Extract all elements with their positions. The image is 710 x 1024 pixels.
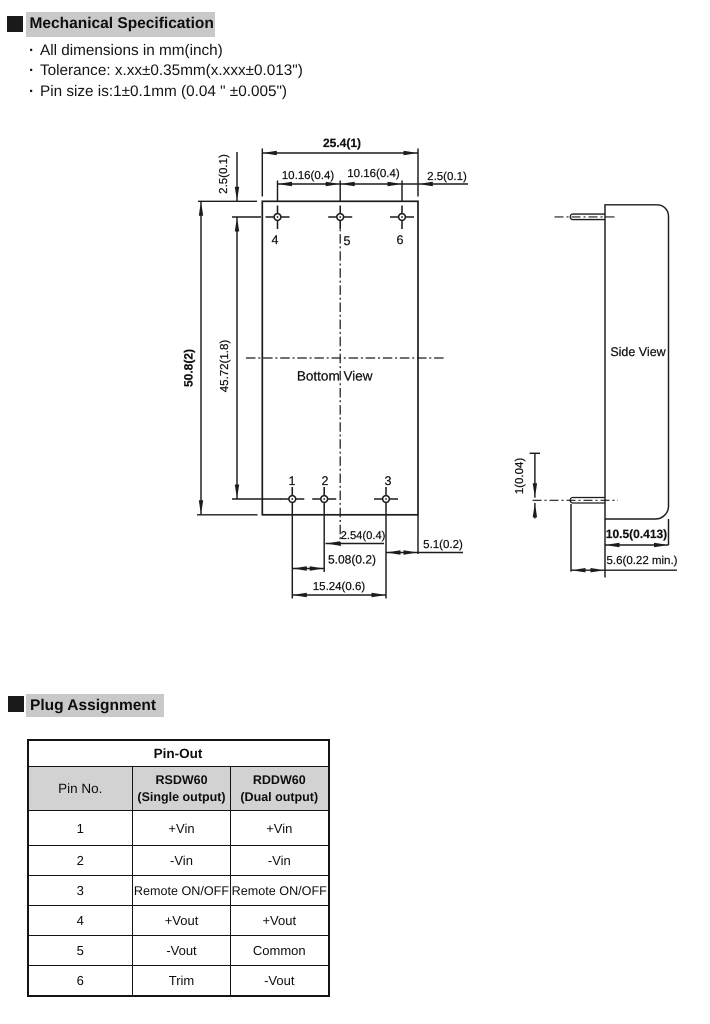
svg-text:25.4(1): 25.4(1) [323, 136, 361, 150]
pin 2 lower extension [323, 511, 325, 572]
dim 2.5(0.1) left vertical line [236, 152, 238, 201]
dim 10.16 extension lines [277, 181, 279, 202]
svg-text:15.24(0.6): 15.24(0.6) [313, 581, 366, 593]
pin 5 [328, 206, 352, 230]
dim 1(0.04) tick [530, 452, 540, 454]
svg-text:2.5(0.1): 2.5(0.1) [427, 171, 467, 183]
pin 1 [280, 487, 304, 511]
side top pin [570, 214, 605, 220]
svg-text:10.16(0.4): 10.16(0.4) [282, 170, 335, 182]
dim 5.1(0.2) line [386, 552, 463, 554]
pin 3 lower extension [385, 511, 387, 599]
bottom pin row extension (left) [232, 498, 281, 500]
top edge extension (left) [198, 200, 257, 202]
svg-text:2: 2 [322, 474, 329, 488]
mechanical drawing [0, 0, 710, 660]
side view body [605, 205, 669, 519]
dim 15.24(0.6) line [292, 594, 386, 596]
pin 1 lower extension [291, 511, 293, 599]
svg-text:10.16(0.4): 10.16(0.4) [347, 168, 400, 180]
dim 2.54(0.4) line [326, 543, 385, 545]
bottom view outline [262, 201, 418, 515]
svg-text:50.8(2): 50.8(2) [182, 349, 196, 387]
svg-text:45.72(1.8): 45.72(1.8) [219, 340, 231, 393]
dim 5.6(0.22 min.) line [571, 569, 677, 571]
pin 2 [312, 487, 336, 511]
pin-out table [27, 739, 330, 997]
dim 5.08(0.2) line [292, 568, 324, 570]
right edge lower extension [417, 515, 419, 554]
svg-text:1: 1 [289, 474, 296, 488]
svg-text:2.54(0.4): 2.54(0.4) [341, 530, 386, 542]
side bottom pin [570, 498, 605, 504]
dim 25.4(1) extension lines [261, 149, 263, 197]
dim 10.5(0.413) line [605, 544, 669, 546]
dim 1(0.04) lower line [534, 503, 536, 519]
svg-text:10.5(0.413): 10.5(0.413) [606, 527, 667, 541]
side pin-left extension [570, 504, 572, 572]
dim 2.5(0.1) right line [402, 183, 468, 185]
pin row extension (left) [232, 216, 261, 218]
svg-text:Side View: Side View [610, 345, 666, 359]
bullet notes [29, 41, 303, 103]
section header: Plug Assignment [8, 696, 24, 712]
svg-text:5.1(0.2): 5.1(0.2) [423, 539, 463, 551]
dim 1(0.04) upper line [534, 453, 536, 497]
horizontal centerline [246, 357, 446, 359]
svg-text:1(0.04): 1(0.04) [514, 458, 526, 495]
svg-text:4: 4 [272, 233, 279, 247]
svg-text:6: 6 [397, 233, 404, 247]
svg-text:5.6(0.22 min.): 5.6(0.22 min.) [607, 555, 678, 567]
svg-text:Bottom View: Bottom View [297, 369, 373, 384]
dim 25.4(1) line [262, 152, 418, 154]
side body-right extension [668, 519, 670, 545]
dim 45.72 line [236, 217, 238, 499]
svg-text:5.08(0.2): 5.08(0.2) [328, 553, 376, 567]
pin 6 [390, 206, 414, 230]
dim 50.8 line [200, 201, 202, 515]
svg-text:5: 5 [344, 234, 351, 248]
pin 3 [374, 487, 398, 511]
bottom edge extension (left) [197, 514, 258, 516]
vertical centerline [339, 217, 341, 546]
side body-left extension [604, 519, 606, 578]
section header: Mechanical Specification [7, 16, 23, 32]
dim 10.16 line [278, 183, 403, 185]
pin 4 [266, 206, 290, 230]
svg-text:2.5(0.1): 2.5(0.1) [218, 154, 230, 194]
svg-text:3: 3 [385, 474, 392, 488]
